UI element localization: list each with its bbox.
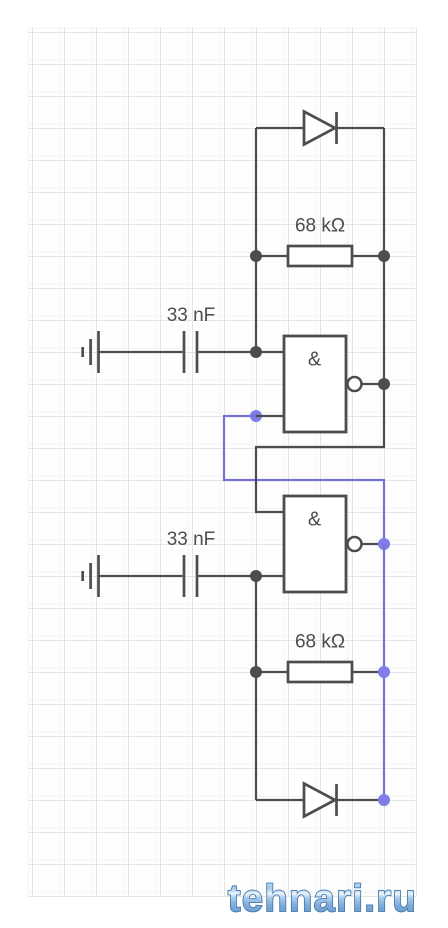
node U2 output (net Q2) [378,538,390,550]
wire node to U1 input 1 [256,351,284,353]
wire net Q2 right rail R2 to D2 [383,672,385,800]
diode D2 [304,784,337,817]
wire left rail R2 to D2 [255,672,257,800]
svg-text:33 nF: 33 nF [167,305,216,326]
wire left rail R1 to C1 node [255,256,257,352]
wire C2 to input node [199,575,257,577]
ground G1 [83,331,99,373]
node junction R2 left [250,666,262,678]
wire U2 output stub [362,543,385,545]
wire R1 left lead [256,255,288,257]
wire D1 anode lead [256,127,304,129]
wire right rail R1 to U1 output [383,256,385,384]
capacitor C2 [184,555,197,597]
ground G2 [83,555,99,597]
NAND gate U2 [284,496,346,592]
U2 output inversion bubble [348,537,362,551]
wire net Q2 right rail U2 to R2 [383,544,385,672]
node junction C2 / U2 input 2 [250,570,262,582]
watermark tehnari.ru [228,878,417,920]
node junction R1 right [378,250,390,262]
wire D1 cathode lead [336,127,384,129]
node D2 cathode (net Q2) [378,794,390,806]
svg-text:33 nF: 33 nF [167,529,216,550]
U1 output inversion bubble [348,377,362,391]
svg-text:68 kΩ: 68 kΩ [295,632,345,653]
wire right rail D1 to R1 [383,128,385,256]
svg-text:&: & [308,509,322,531]
node junction C1 / U1 input 1 [250,346,262,358]
wire R2 left lead [256,671,288,673]
wire R1 right lead [352,255,384,257]
node U1 output [378,378,390,390]
svg-text:tehnari.ru: tehnari.ru [228,878,417,920]
node junction R2 right (net Q2) [378,666,390,678]
diode D1 [304,112,337,145]
wire left rail D1 to R1 [255,128,257,256]
wire node to U2 input 2 [256,575,284,577]
node U1 input 2 (net Q2) [250,410,262,422]
capacitor C1 [184,331,197,373]
svg-text:&: & [308,349,322,371]
wire node to U1 input 2 [256,415,284,417]
wire U1 output stub [362,383,385,385]
wire net Q2 feedback (U2 out to U1 in2) [224,416,384,544]
wire G2 to C2 [100,575,183,577]
wire feedback U1 output to U2 input 1 [256,384,384,512]
wire left rail C2 node to R2 [255,576,257,672]
wire R2 right lead [352,671,384,673]
NAND gate U1 [284,336,346,432]
node junction R1 left [250,250,262,262]
wire C1 to input node [199,351,257,353]
wire D2 cathode lead [336,799,384,801]
svg-text:68 kΩ: 68 kΩ [295,216,345,237]
wire D2 anode lead [256,799,304,801]
resistor R2 [288,662,352,682]
resistor R1 [288,246,352,266]
wire G1 to C1 [100,351,183,353]
